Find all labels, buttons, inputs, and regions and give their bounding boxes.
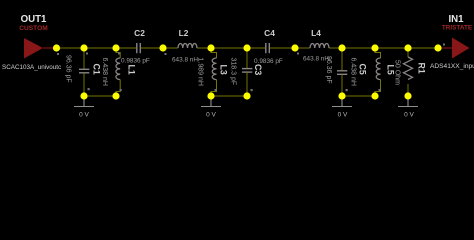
wire capacitor C4 to node G [270,47,295,49]
svg-text:6.438 nH: 6.438 nH [101,58,108,86]
wire inductor L2 to node E [197,47,211,49]
capacitor C2 [137,43,141,53]
capacitor C3 (shunt) [242,48,252,96]
op-amp OUT1 (source buffer triangle) [24,38,43,59]
node H [338,44,345,51]
node H bottom [338,92,345,99]
svg-text:R1: R1 [417,63,427,74]
op-amp IN1 (ADC input triangle) [452,38,470,59]
svg-text:OUT1: OUT1 [21,14,47,25]
wire node G to inductor L4 [295,47,310,49]
svg-text:L4: L4 [311,28,321,38]
svg-text:0 V: 0 V [338,112,348,119]
svg-text:6.438 nH: 6.438 nH [350,58,357,86]
wire node C to capacitor C2 [116,47,136,49]
node B [80,44,87,51]
wire bottom rail B-C [84,95,116,97]
wire bottom rail E-F [211,95,247,97]
wire inductor L4 to node H [329,47,342,49]
wire OUT1 output to node A [43,47,56,49]
svg-text:1.989 nH: 1.989 nH [197,58,204,86]
svg-text:50 Ohm: 50 Ohm [394,60,401,85]
node J [404,44,411,51]
svg-text:318.3 pF: 318.3 pF [230,58,237,86]
wire node A to node B [57,47,85,49]
svg-text:C5: C5 [358,64,368,75]
svg-text:0.9836 pF: 0.9836 pF [121,58,150,65]
node C [112,44,119,51]
ground below C5 [332,100,352,107]
node I bottom [371,92,378,99]
svg-text:ADS41XX_input: ADS41XX_input [430,63,474,70]
node E bottom [207,92,214,99]
svg-text:C3: C3 [253,64,263,75]
capacitor C4 [266,43,270,53]
ground below C1 [74,100,94,107]
capacitor C1 (shunt) [79,48,89,96]
resistor R1 (shunt termination) [404,48,413,96]
svg-text:96.36 pF: 96.36 pF [65,55,72,83]
svg-text:L3: L3 [219,65,229,75]
node G [291,44,298,51]
node B bottom [80,92,87,99]
inductor L4 [310,44,329,48]
wire node I to node J [375,47,408,49]
svg-text:IN1: IN1 [448,14,464,25]
wire node J to node K [408,47,438,49]
node F bottom [243,92,250,99]
node F [243,44,250,51]
capacitor C5 (shunt) [337,48,347,96]
node I [371,44,378,51]
wire node F to capacitor C4 [247,47,265,49]
wire node K to IN1 input [438,47,452,49]
svg-text:C4: C4 [264,28,275,38]
svg-text:CUSTOM: CUSTOM [19,25,48,32]
svg-text:SCAC103A_univoutc: SCAC103A_univoutc [2,64,61,71]
ground below L3 [201,100,221,107]
svg-text:C1: C1 [92,64,102,75]
wire node H to node I [342,47,375,49]
svg-text:0 V: 0 V [404,112,414,119]
svg-text:96.36 pF: 96.36 pF [325,56,332,84]
inductor L1 (shunt) [116,48,120,96]
wire node D to inductor L2 [163,47,178,49]
svg-text:L2: L2 [179,28,189,38]
svg-text:C2: C2 [134,28,145,38]
wire bottom rail H-I [342,95,375,97]
node C bottom [112,92,119,99]
inductor L5 (shunt) [375,48,381,96]
svg-text:L1: L1 [127,65,137,75]
svg-text:0 V: 0 V [206,112,216,119]
inductor L2 [178,44,197,48]
svg-text:643.8 nH: 643.8 nH [172,57,198,64]
node D [159,44,166,51]
svg-text:0 V: 0 V [79,112,89,119]
wire node E to node F [211,47,247,49]
node tick marks [57,44,445,92]
node R1 bottom [404,92,411,99]
node E [207,44,214,51]
wire node B to node C [84,47,116,49]
node A [53,44,60,51]
ground below R1 [398,100,418,107]
svg-text:TRISTATE: TRISTATE [442,25,473,32]
wire capacitor C2 to node D [141,47,163,49]
inductor L3 (shunt) [211,48,217,96]
node K [434,44,441,51]
